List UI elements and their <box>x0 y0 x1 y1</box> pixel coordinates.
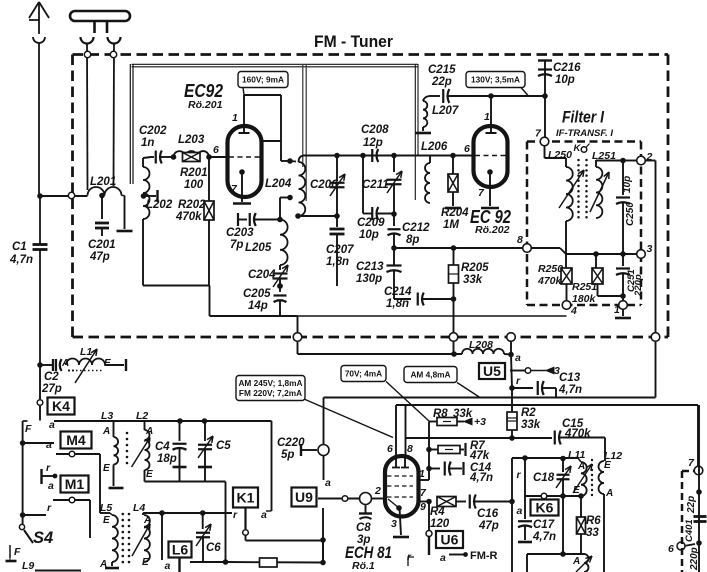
svg-text:4,7n: 4,7n <box>558 384 582 396</box>
svg-text:U6: U6 <box>441 532 459 548</box>
svg-text:L6: L6 <box>172 542 189 558</box>
svg-text:C201: C201 <box>88 239 116 251</box>
svg-text:70V; 4mA: 70V; 4mA <box>345 368 382 378</box>
svg-text:a: a <box>48 480 54 492</box>
svg-text:10p: 10p <box>359 229 379 241</box>
svg-text:C212: C212 <box>402 222 430 234</box>
svg-text:Rö.202: Rö.202 <box>475 224 510 236</box>
svg-text:2: 2 <box>374 485 381 497</box>
svg-text:a: a <box>46 439 52 451</box>
svg-text:L5: L5 <box>100 502 112 514</box>
svg-text:C16: C16 <box>477 508 499 520</box>
svg-text:1n: 1n <box>141 137 154 149</box>
svg-text:E: E <box>146 469 153 480</box>
svg-text:470k: 470k <box>537 275 563 287</box>
svg-text:FM 220V; 7,2mA: FM 220V; 7,2mA <box>239 388 302 398</box>
svg-text:a: a <box>261 509 267 521</box>
svg-text:C4: C4 <box>155 441 170 453</box>
svg-text:IF-TRANSF. I: IF-TRANSF. I <box>556 128 613 139</box>
svg-text:R201: R201 <box>180 167 208 179</box>
svg-text:C215: C215 <box>428 64 456 76</box>
svg-text:4,7n: 4,7n <box>9 254 33 266</box>
svg-text:L208: L208 <box>469 339 493 351</box>
svg-text:1M: 1M <box>443 219 459 231</box>
svg-text:K1: K1 <box>237 490 255 506</box>
svg-text:A: A <box>572 556 580 567</box>
svg-text:K: K <box>574 143 582 154</box>
svg-text:12p: 12p <box>363 137 383 149</box>
svg-text:470k: 470k <box>175 211 202 223</box>
svg-text:1: 1 <box>419 468 425 480</box>
svg-text:a: a <box>517 505 523 517</box>
svg-text:L3: L3 <box>101 410 113 422</box>
svg-text:R6: R6 <box>586 515 601 527</box>
svg-text:C8: C8 <box>356 522 371 534</box>
svg-text:8: 8 <box>517 234 523 246</box>
svg-text:R202: R202 <box>178 199 206 211</box>
svg-text:L11: L11 <box>568 449 585 461</box>
svg-text:6: 6 <box>464 143 470 155</box>
svg-text:L9: L9 <box>22 560 34 572</box>
svg-text:L250: L250 <box>548 149 572 161</box>
svg-text:18p: 18p <box>157 453 177 465</box>
svg-text:L206: L206 <box>421 141 448 153</box>
svg-text:E: E <box>103 463 110 474</box>
svg-text:R250: R250 <box>538 263 563 275</box>
svg-text:R4: R4 <box>430 506 445 518</box>
svg-text:C1: C1 <box>12 241 27 253</box>
svg-text:L207: L207 <box>432 105 459 117</box>
svg-text:C207: C207 <box>326 244 354 256</box>
svg-text:130V; 3,5mA: 130V; 3,5mA <box>471 74 520 84</box>
svg-text:10p: 10p <box>622 176 633 193</box>
svg-text:C202: C202 <box>139 125 167 137</box>
svg-text:Rö.1: Rö.1 <box>352 560 375 572</box>
svg-text:a: a <box>440 552 446 564</box>
svg-text:470k: 470k <box>564 428 591 440</box>
svg-text:C401: C401 <box>684 519 695 542</box>
svg-text:S4: S4 <box>33 529 53 547</box>
svg-text:47p: 47p <box>89 251 110 263</box>
svg-text:14p: 14p <box>248 300 268 312</box>
svg-text:C211: C211 <box>362 179 389 191</box>
svg-text:U5: U5 <box>483 363 501 379</box>
svg-text:AM 245V; 1,8mA: AM 245V; 1,8mA <box>238 378 302 388</box>
svg-text:R204: R204 <box>441 207 469 219</box>
svg-text:180k: 180k <box>572 293 597 305</box>
svg-text:Filter I: Filter I <box>562 109 604 127</box>
svg-text:8p: 8p <box>406 234 419 246</box>
svg-text:K4: K4 <box>52 398 70 414</box>
svg-text:3: 3 <box>391 518 397 530</box>
svg-text:4,7n: 4,7n <box>469 472 493 484</box>
svg-text:a: a <box>165 560 171 572</box>
svg-text:1,8n: 1,8n <box>386 298 409 310</box>
svg-text:120: 120 <box>430 518 450 530</box>
svg-text:E: E <box>142 557 149 568</box>
svg-text:A: A <box>145 426 153 437</box>
svg-text:L203: L203 <box>178 134 205 146</box>
svg-text:1,8n: 1,8n <box>326 256 349 268</box>
svg-text:L202: L202 <box>146 199 173 211</box>
svg-text:R251: R251 <box>572 281 597 293</box>
svg-text:C6: C6 <box>206 542 221 554</box>
svg-text:Rö.201: Rö.201 <box>188 99 223 111</box>
svg-text:E: E <box>104 358 111 369</box>
svg-text:C208: C208 <box>361 124 389 136</box>
svg-text:220p: 220p <box>689 547 700 571</box>
svg-text:A: A <box>102 426 110 437</box>
svg-text:FM-R: FM-R <box>470 550 498 562</box>
svg-text:22p: 22p <box>431 76 452 88</box>
svg-text:47p: 47p <box>478 520 499 532</box>
svg-text:+3: +3 <box>474 416 486 428</box>
svg-text:8: 8 <box>407 443 413 455</box>
svg-text:5p: 5p <box>281 449 294 461</box>
svg-text:6: 6 <box>668 543 674 555</box>
svg-text:160V; 9mA: 160V; 9mA <box>242 74 284 84</box>
svg-text:4,7n: 4,7n <box>532 531 556 543</box>
svg-text:a: a <box>515 352 521 364</box>
svg-text:33: 33 <box>586 527 599 539</box>
svg-text:C203: C203 <box>226 227 254 239</box>
svg-text:L1: L1 <box>80 346 92 358</box>
svg-text:6: 6 <box>387 443 393 455</box>
svg-text:R2: R2 <box>521 407 536 419</box>
svg-text:C209: C209 <box>357 217 385 229</box>
svg-text:K6: K6 <box>536 500 554 516</box>
svg-text:C206: C206 <box>310 179 338 191</box>
svg-text:AM 4,8mA: AM 4,8mA <box>410 369 450 379</box>
svg-text:33k: 33k <box>521 419 541 431</box>
svg-text:a: a <box>325 477 331 489</box>
svg-text:4: 4 <box>570 305 577 317</box>
svg-text:22p: 22p <box>686 496 697 514</box>
svg-text:C204: C204 <box>248 269 276 281</box>
svg-text:C214: C214 <box>384 286 412 298</box>
svg-text:1: 1 <box>484 111 490 123</box>
svg-text:33k: 33k <box>463 274 483 286</box>
svg-text:C5: C5 <box>216 440 231 452</box>
svg-text:10p: 10p <box>555 74 575 86</box>
svg-text:1: 1 <box>232 112 238 124</box>
svg-text:L204: L204 <box>265 178 292 190</box>
svg-text:27p: 27p <box>41 383 62 395</box>
svg-text:E: E <box>103 515 110 526</box>
svg-text:M4: M4 <box>66 432 86 448</box>
svg-text:L205: L205 <box>245 242 272 254</box>
svg-text:FM - Tuner: FM - Tuner <box>314 32 393 51</box>
svg-text:100: 100 <box>184 179 204 191</box>
svg-text:F: F <box>14 546 21 558</box>
svg-text:L2: L2 <box>136 410 148 422</box>
svg-text:C13: C13 <box>559 372 581 384</box>
svg-text:C216: C216 <box>553 62 581 74</box>
svg-text:3: 3 <box>647 243 653 255</box>
svg-text:47k: 47k <box>469 450 490 462</box>
svg-text:C205: C205 <box>243 288 271 300</box>
svg-text:7p: 7p <box>230 239 243 251</box>
svg-text:L201: L201 <box>90 176 116 188</box>
svg-text:A: A <box>605 488 613 499</box>
svg-text:6: 6 <box>213 144 219 156</box>
svg-text:U9: U9 <box>295 489 313 505</box>
svg-text:R205: R205 <box>461 262 489 274</box>
svg-text:M1: M1 <box>65 476 85 492</box>
svg-text:9: 9 <box>420 501 426 513</box>
svg-text:C250: C250 <box>625 202 636 226</box>
svg-text:C17: C17 <box>533 519 555 531</box>
svg-text:C213: C213 <box>356 261 384 273</box>
svg-text:C2: C2 <box>44 371 59 383</box>
svg-text:F: F <box>25 423 32 435</box>
svg-text:E: E <box>604 460 611 471</box>
svg-text:130p: 130p <box>356 273 382 285</box>
svg-text:1: 1 <box>614 304 620 316</box>
svg-text:C18: C18 <box>533 472 555 484</box>
svg-text:A: A <box>61 358 69 369</box>
svg-text:220p: 220p <box>633 274 644 297</box>
svg-text:EC92: EC92 <box>184 81 223 101</box>
